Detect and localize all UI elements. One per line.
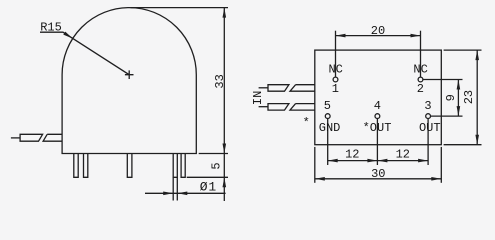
extension line pin bottom [187, 176, 228, 178]
R15 leader line [40, 32, 129, 74]
arrowhead 9 top (up) [457, 80, 461, 90]
svg-text:33: 33 [213, 74, 227, 88]
svg-text:9: 9 [444, 94, 458, 101]
extension line top (apex of dome) [131, 7, 229, 9]
extension line body bottom right [199, 153, 228, 155]
svg-text:R15: R15 [40, 20, 62, 34]
dimension line 20 [336, 35, 421, 37]
pin 5 circle (GND) [325, 114, 330, 119]
arrowhead 12 left [328, 159, 338, 163]
extension line pin 3 right (9 dim) [431, 115, 463, 117]
arrowhead Ø1 left (pointing right) [163, 192, 173, 196]
dimension line 12 12 [328, 160, 428, 162]
arrowhead 20 right [411, 34, 421, 38]
svg-text:12: 12 [396, 147, 410, 161]
pin P2 (side view) [84, 154, 88, 178]
dimension line 33 and 5 (vertical) [223, 8, 225, 201]
R15 center mark [125, 70, 134, 79]
extension line pin 2 right (9 dim) [423, 79, 462, 81]
svg-text:OUT: OUT [419, 121, 441, 135]
arrowhead R15 on arc [63, 32, 72, 39]
pin 2 circle (NC) [418, 77, 423, 82]
svg-text:12: 12 [345, 147, 359, 161]
pin 1 circle (NC) [333, 77, 338, 82]
extension line pin 5 down [327, 119, 329, 166]
arrowhead 20 left [336, 34, 346, 38]
extension line rect bottom right (23 dim) [444, 144, 482, 146]
extension lines Ø1 (pin P4 sides extended) [173, 177, 177, 200]
dimension line 23 [476, 50, 478, 145]
extension line rect right down (30 dim) [440, 147, 442, 183]
arrowhead 12 middle right-facing [377, 159, 387, 163]
input lead 1 (top view, with break symbol) [259, 87, 268, 89]
extension line pin 1 up [335, 31, 337, 77]
svg-text:5: 5 [210, 162, 224, 169]
svg-text:20: 20 [371, 24, 385, 38]
pin 4 circle (*OUT) [375, 114, 380, 119]
arrowhead 23 top (up) [475, 50, 479, 60]
arrowhead 12 right [418, 159, 428, 163]
svg-text:GND: GND [319, 121, 341, 135]
arrowhead 23 bottom (down) [475, 135, 479, 145]
svg-text:2: 2 [417, 82, 424, 96]
input lead 2 (top view, with break symbol) [259, 106, 268, 108]
svg-text:1: 1 [332, 82, 339, 96]
arrowhead 12 middle left-facing [367, 159, 377, 163]
dimension line 9 [457, 80, 459, 117]
svg-text:*: * [303, 116, 310, 130]
svg-text:Ø1: Ø1 [200, 179, 217, 194]
svg-text:NC: NC [413, 63, 427, 77]
top view package rectangle [315, 50, 442, 145]
svg-text:IN: IN [251, 91, 265, 105]
extension line pin 3 down [427, 119, 429, 166]
svg-text:*OUT: *OUT [363, 121, 392, 135]
svg-text:3: 3 [424, 99, 431, 113]
pin 3 circle (OUT) [426, 114, 431, 119]
pin P3 (side view middle) [127, 154, 132, 178]
wire lead (side view, input lead with break symbol) [11, 137, 20, 139]
arrowhead Ø1 right (pointing left) [177, 192, 187, 196]
arrowhead 30 left [315, 177, 325, 181]
dimension line 30 [315, 178, 442, 180]
pin P4 (side view, dimensioned Ø1) [173, 154, 177, 178]
extension line pin 4 down [376, 119, 378, 166]
svg-text:30: 30 [371, 167, 385, 181]
pin P1 (side view leftmost) [74, 154, 78, 178]
extension line rect top right (23 dim) [444, 49, 482, 51]
arrowhead 5 bottom (up, from below) [223, 177, 227, 187]
dimension line Ø1 [145, 192, 226, 194]
arrowhead 9 bottom (down) [457, 106, 461, 116]
arrowhead 30 right [431, 177, 441, 181]
body outline (side view, dome R15 on rectangular base) [62, 8, 196, 154]
svg-text:NC: NC [328, 63, 342, 77]
extension line rect left down (30 dim) [314, 147, 316, 183]
svg-text:4: 4 [374, 99, 381, 113]
svg-text:5: 5 [324, 99, 331, 113]
pin P5 (side view rightmost) [181, 154, 185, 178]
svg-text:23: 23 [462, 90, 476, 104]
arrowhead 33 bottom / 5 top (down) [223, 144, 227, 154]
extension line pin 2 up [420, 31, 422, 77]
arrowhead 33 top (up) [223, 8, 227, 18]
